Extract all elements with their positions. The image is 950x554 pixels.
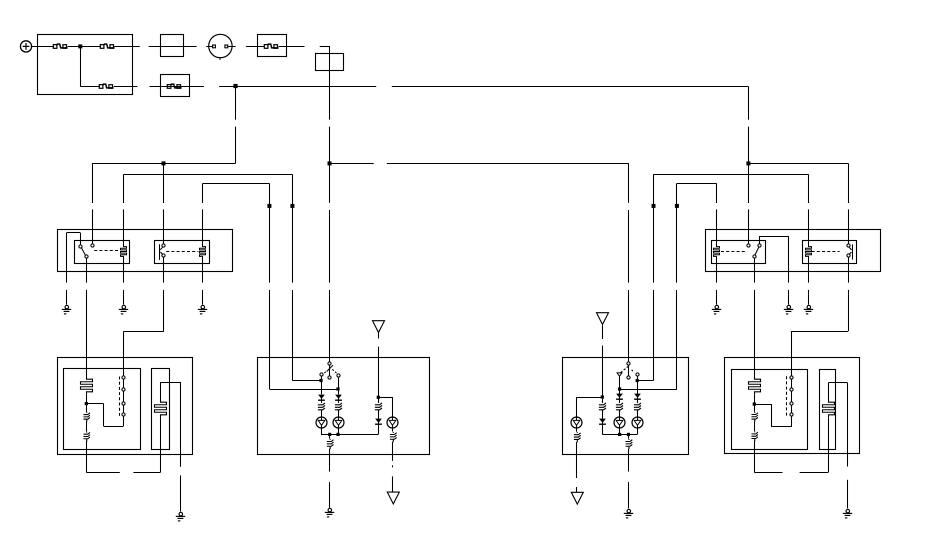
bus wire lamps right — [602, 434, 637, 436]
lamp L5 — [632, 417, 643, 428]
resistor R2 — [335, 402, 342, 413]
wire node branch to switch column — [86, 403, 103, 405]
resistor R1 — [318, 402, 325, 413]
lamp L6 — [571, 417, 582, 428]
ground G5 — [325, 508, 334, 517]
wire chain b right — [637, 381, 639, 395]
switch column contact 3 — [122, 402, 125, 405]
relay K4 arm marks — [849, 247, 851, 250]
diode D6 — [599, 419, 606, 425]
switch column dashed linkage — [119, 377, 121, 417]
wire F4 out — [279, 46, 305, 48]
wire K2 coil to ground — [202, 258, 204, 282]
switch column right contact 1 — [790, 376, 793, 379]
fuse box F5 outline — [161, 75, 190, 97]
relay K1 moving arm — [81, 247, 85, 255]
sensor box left outline — [152, 369, 170, 450]
connector box E2 — [316, 54, 344, 71]
wire winding to node — [86, 394, 88, 404]
switch column right contact 3 — [790, 402, 793, 405]
page arrow down B — [387, 492, 399, 504]
relay K4 coil — [806, 245, 812, 259]
relay box right outline — [706, 230, 881, 272]
motor left inner outline — [64, 369, 141, 450]
wire to bus — [602, 425, 604, 435]
wire — [321, 413, 323, 417]
relay K3 arm terminal — [753, 255, 756, 258]
fuse F2 — [100, 44, 114, 48]
lamp L3 — [387, 417, 398, 428]
relay K1 contact fixed b — [91, 244, 94, 247]
relay box left outline — [58, 230, 233, 272]
relay K4 link dashed — [812, 251, 840, 253]
ignition switch — [209, 34, 232, 60]
page arrow down D — [571, 492, 583, 504]
lever switch right: arm terminal — [627, 376, 630, 379]
node M2a — [753, 403, 756, 406]
wire winding to node — [754, 394, 756, 404]
wire down to relay K2 coil — [202, 183, 204, 203]
wire Z1-Z2 — [86, 404, 88, 412]
switch column contact 4 — [122, 413, 125, 416]
diode D5 — [634, 394, 641, 400]
wire M2 horizontal — [124, 174, 293, 176]
wire right elbow down — [748, 86, 750, 119]
node B3 — [377, 396, 380, 399]
wire M3 horizontal — [203, 183, 270, 185]
relay K4 contact top — [847, 244, 850, 247]
wire down to ground G10 — [847, 383, 849, 467]
relay K3 coil — [714, 245, 720, 259]
ground G7 — [712, 305, 721, 314]
battery B+ terminal — [20, 41, 31, 52]
fuse F5 — [167, 84, 181, 88]
ground G4 — [176, 512, 185, 521]
node B5 — [336, 433, 339, 436]
node B10 — [627, 433, 630, 436]
wire jog to switch column right — [792, 331, 848, 333]
switch column right contact 2 — [790, 388, 793, 391]
wire lamp L6 down — [576, 428, 578, 432]
wire lamp to bus — [637, 428, 639, 435]
wire contact a stub — [619, 377, 621, 389]
relay K1 outline — [75, 241, 130, 264]
node B6 — [636, 379, 639, 382]
wire lamp to bus — [619, 428, 621, 435]
diode D1 — [318, 395, 325, 401]
relay K4 contact bar — [852, 244, 854, 259]
wire M4 horizontal — [654, 174, 809, 176]
relay K3 moving arm — [755, 247, 759, 255]
wire mid horizontal M1 — [92, 163, 235, 165]
wire row2 elbow to fuse F3 — [80, 86, 100, 88]
node J4 — [328, 161, 332, 165]
wire down to relay K1 contact — [92, 163, 94, 203]
wire down to relay K4 contact — [848, 163, 850, 203]
sensor box right outline — [820, 370, 836, 450]
relay K2 contact top — [162, 244, 165, 247]
lamp L2 — [333, 417, 344, 428]
wire down to right switch contact a — [653, 174, 655, 282]
ground G8 — [784, 305, 793, 314]
node B2 — [336, 387, 339, 390]
wire branch to lamp L3 — [378, 397, 393, 399]
relay K4 contact bottom — [847, 254, 850, 257]
ground G1 — [62, 305, 71, 314]
wire contact b stub — [338, 377, 340, 389]
lever switch right: lever dashes — [621, 366, 629, 372]
node A3 — [652, 204, 656, 208]
wire K3 coil to ground — [716, 258, 718, 282]
node B8 — [601, 395, 604, 398]
switch column right dashed linkage — [786, 376, 788, 416]
lever switch left: top terminal — [328, 362, 331, 365]
switch column contact 1 — [122, 376, 125, 379]
node M1a — [85, 402, 88, 405]
lever switch right: arm — [628, 365, 630, 376]
wire down to relay K3 contact — [748, 163, 750, 203]
node A2 — [290, 204, 294, 208]
connector box E1 — [161, 35, 184, 57]
node B4 — [328, 433, 331, 436]
motor unit left outline — [58, 358, 193, 455]
relay K4 outline — [803, 241, 857, 264]
wire M5 horizontal — [677, 183, 717, 185]
wire up into sensor box — [160, 417, 162, 472]
wire stub to vertical bus — [320, 46, 330, 48]
switch column right contact 4 — [790, 413, 793, 416]
wire chain b — [338, 389, 340, 394]
wire feed b — [269, 389, 338, 391]
wire ignition to fuse box F4 — [246, 46, 265, 48]
page arrow down A — [373, 321, 385, 333]
wire row1 out of fuse box — [114, 46, 140, 48]
lever switch left: throw dashes — [322, 372, 326, 374]
wire to bus — [378, 425, 380, 435]
wire down to relay K1 coil — [123, 174, 125, 203]
bus wire row2 to right elbow — [236, 86, 377, 88]
resistor R8 — [599, 402, 606, 413]
wire K3 arm down to motor unit — [754, 258, 756, 282]
relay K2 outline — [155, 241, 210, 264]
wire up into sensor box right — [828, 417, 830, 472]
wire Z3-Z4 — [754, 404, 756, 412]
wire — [378, 397, 380, 402]
wire sensor right top jog — [828, 383, 830, 400]
node A4 — [675, 204, 679, 208]
wire — [602, 397, 604, 402]
ground G2 — [119, 305, 128, 314]
lever switch left: arm terminal — [328, 376, 331, 379]
fuse/relay box outline — [38, 35, 133, 95]
relay K3 outline — [712, 241, 766, 264]
breaker Z3 — [751, 412, 758, 422]
resistor R6 — [616, 402, 623, 413]
wire feed b right — [637, 380, 653, 382]
wire K3 ground jog — [759, 236, 761, 244]
relay K1 contact fixed a — [79, 245, 82, 248]
lever switch right: top terminal — [627, 362, 630, 365]
relay K2 coil — [200, 245, 206, 259]
relay K2 contact bottom — [162, 254, 165, 257]
wire K4 contact down to jog — [848, 258, 850, 283]
fuse F1 — [53, 44, 67, 48]
sensor winding right — [823, 400, 835, 417]
wire contact a stub — [321, 376, 323, 380]
resistor R3 — [375, 402, 382, 413]
node J2 — [233, 84, 237, 88]
motor unit right outline — [725, 358, 860, 454]
relay K2 arm marks — [160, 247, 162, 250]
lever switch left: arm — [329, 365, 331, 376]
switch unit left outline — [258, 358, 430, 455]
ground G6 — [624, 509, 633, 518]
lever switch left: lever — [327, 365, 333, 371]
wire K1 arm down to motor unit — [86, 258, 88, 282]
wire J5 to right branch — [748, 163, 848, 165]
node J3 — [162, 161, 166, 165]
wire jog down to ground — [66, 233, 68, 283]
wire down to left switch contact b — [269, 183, 271, 282]
ground G9 — [804, 305, 813, 314]
wire arrow to box — [378, 332, 380, 339]
wire — [338, 413, 340, 417]
wire J1 down to row2 — [80, 46, 82, 86]
resistor R4 — [390, 432, 397, 442]
wire — [619, 400, 621, 403]
fuse F4 — [264, 44, 278, 48]
wire row2 out of fuse box — [114, 86, 138, 88]
wire J2 down — [235, 86, 237, 119]
lever switch left: contact b — [337, 374, 340, 377]
relay K2 contact bar — [159, 244, 161, 260]
ground G3 — [198, 305, 207, 314]
resistor R9 — [574, 432, 581, 442]
lamp L4 — [614, 417, 625, 428]
wire bottom jog left — [86, 472, 120, 474]
breaker Z1 — [83, 412, 90, 422]
relay K3 contact fixed a — [747, 244, 750, 247]
page arrow down C — [597, 313, 609, 325]
wire down to ground G4 — [180, 382, 182, 467]
motor right inner outline — [732, 370, 808, 450]
wire lamp to bus — [338, 428, 340, 435]
resistor R10 to ground — [626, 439, 633, 449]
wire — [338, 400, 340, 402]
wire down to left switch contact a — [292, 174, 294, 282]
wire lamp L3 down — [392, 428, 394, 432]
bus wire lamps — [321, 434, 378, 436]
node J5 — [746, 161, 750, 165]
relay K3 link dashed — [721, 251, 746, 253]
diode D2 — [335, 395, 342, 401]
resistor R5 to ground — [327, 439, 334, 449]
wire feed a right — [620, 389, 677, 391]
lever switch right: contact a (triangle) — [617, 373, 622, 376]
switch column right link — [791, 379, 793, 413]
wire K2 contact down to jog — [163, 258, 165, 283]
wire ignition terminals — [206, 46, 212, 48]
wire down to relay K3 coil — [716, 183, 718, 203]
wire node branch to switch column right — [754, 404, 771, 406]
switch unit right outline — [563, 358, 689, 455]
switch column contact 2 — [122, 388, 125, 391]
wire sensor top jog — [160, 382, 162, 400]
wire jog down to ground — [788, 236, 790, 283]
ground G10 — [843, 509, 852, 518]
wire K4 coil to ground — [808, 258, 810, 282]
relay K1 link dashed — [94, 250, 119, 252]
wire contact b stub — [637, 376, 639, 380]
relay K3 contact fixed b — [758, 244, 761, 247]
wire jog to switch column — [123, 331, 163, 333]
switch column link — [123, 379, 125, 413]
node A1 — [267, 204, 271, 208]
wire down to relay K4 coil — [808, 174, 810, 203]
wire arrow to box right — [602, 325, 604, 339]
wire down to right switch contact b — [676, 183, 678, 282]
lever switch left: contact a — [320, 373, 323, 376]
relay K1 coil — [121, 245, 127, 259]
wire K1 coil to ground — [123, 258, 125, 282]
wire — [637, 413, 639, 417]
relay K2 link dashed — [166, 251, 198, 253]
node J1 — [78, 44, 82, 48]
wire feed a — [292, 380, 321, 382]
breaker Z2 — [83, 432, 90, 442]
motor winding M2 — [749, 377, 761, 394]
wire vertical center bus — [329, 46, 331, 120]
lever switch right: contact b — [636, 373, 639, 376]
wire branch down to right switch — [628, 163, 630, 203]
wire K1 ground jog — [66, 232, 80, 234]
wire — [637, 400, 639, 403]
relay K1 arm terminal — [85, 255, 88, 258]
diode D4 — [616, 394, 623, 400]
wire J4 branch right — [330, 163, 374, 165]
node B1 — [319, 379, 322, 382]
sensor winding — [155, 400, 167, 417]
lamp L1 — [316, 417, 327, 428]
resistor R7 — [634, 402, 641, 413]
wire battery to fuse F1 — [32, 46, 54, 48]
wire F1 to node — [68, 46, 101, 48]
node B9 — [618, 433, 621, 436]
motor winding M1 — [81, 377, 93, 394]
breaker Z4 — [751, 431, 758, 441]
wire branch to lamp L6 — [577, 397, 603, 399]
diode D3 — [375, 419, 382, 425]
wire bottom jog right — [754, 472, 782, 474]
wire chain a — [321, 381, 323, 395]
wire — [321, 400, 323, 402]
fuse F3 — [99, 84, 113, 88]
fuse box F4 outline — [258, 35, 287, 57]
wire chain a right — [619, 389, 621, 394]
wire lamp to bus — [321, 428, 323, 435]
node B7 — [618, 387, 621, 390]
wire — [619, 413, 621, 417]
wire J3 down to relay K2 contact — [163, 163, 165, 203]
